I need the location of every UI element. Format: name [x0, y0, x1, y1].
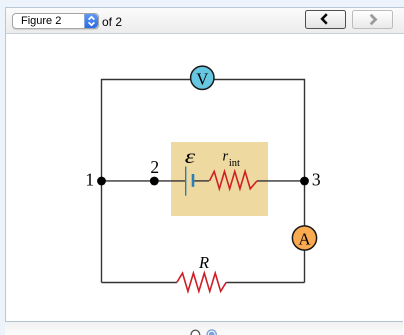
footer strip with page dots	[5, 321, 403, 335]
figure dropdown	[12, 13, 99, 29]
wire: outer loop	[102, 80, 305, 283]
forward button (disabled)	[352, 10, 393, 29]
svg-text:A: A	[298, 230, 311, 249]
page dot 2 (selected)	[207, 330, 216, 335]
voltmeter V	[191, 66, 214, 89]
page dot 1 (unselected)	[191, 330, 200, 335]
resistor r_int zigzag	[210, 171, 258, 188]
svg-text:V: V	[196, 69, 208, 88]
wire: r_int to node 3	[257, 180, 305, 182]
resistor R zigzag	[177, 273, 226, 291]
svg-text:3: 3	[312, 169, 321, 189]
svg-text:2: 2	[150, 157, 159, 177]
wire: battery to r_int	[194, 180, 209, 182]
battery EMF plates	[185, 167, 187, 196]
svg-text:1: 1	[85, 169, 94, 189]
node 2	[150, 177, 159, 186]
node 3	[300, 177, 309, 186]
svg-text:r: r	[223, 148, 229, 164]
svg-text:int: int	[229, 158, 240, 169]
battery highlight box	[171, 142, 268, 216]
svg-text:ε: ε	[185, 146, 196, 168]
wire: middle left segment (node1 to battery)	[102, 180, 186, 182]
toolbar	[6, 8, 404, 34]
label epsilon	[185, 146, 196, 168]
back button	[305, 10, 346, 29]
svg-text:R: R	[198, 253, 209, 272]
node 1	[97, 177, 106, 186]
ammeter A	[292, 226, 316, 250]
